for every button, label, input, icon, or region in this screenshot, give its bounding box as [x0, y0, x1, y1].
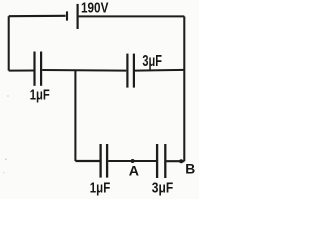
- svg-text:1μF: 1μF: [30, 87, 50, 104]
- battery V1 190V: [67, 4, 78, 29]
- wire bottom-right segment: [166, 160, 184, 162]
- wire top-left segment: [9, 15, 66, 17]
- svg-text:A: A: [129, 163, 139, 179]
- svg-text:3μF: 3μF: [142, 53, 162, 70]
- capacitor C1 1μF (middle left): [35, 52, 42, 86]
- wire branch vertical drop: [74, 70, 76, 161]
- wire top-right segment: [79, 15, 185, 17]
- capacitor C2 3μF (middle right): [127, 54, 133, 88]
- scan speck 1: [5, 158, 7, 160]
- wire middle-left segment: [9, 69, 34, 71]
- wire middle-right segment: [135, 69, 184, 72]
- wire left vertical: [8, 16, 10, 70]
- svg-text:190V: 190V: [81, 0, 109, 17]
- wire right vertical: [183, 16, 185, 161]
- scan speck 3: [7, 95, 9, 97]
- capacitor C4 3μF (bottom right): [157, 144, 165, 178]
- svg-text:3μF: 3μF: [152, 180, 173, 197]
- wire middle-center segment: [42, 69, 126, 72]
- svg-text:1μF: 1μF: [90, 179, 110, 196]
- node A (junction dot): [131, 159, 135, 163]
- capacitor C3 1μF (bottom left): [101, 144, 108, 178]
- wire bottom-left segment: [75, 160, 99, 162]
- svg-text:B: B: [185, 161, 195, 176]
- wire bottom-center segment: [108, 160, 156, 162]
- scan speck 2: [3, 172, 4, 173]
- node B (junction dot): [179, 159, 183, 163]
